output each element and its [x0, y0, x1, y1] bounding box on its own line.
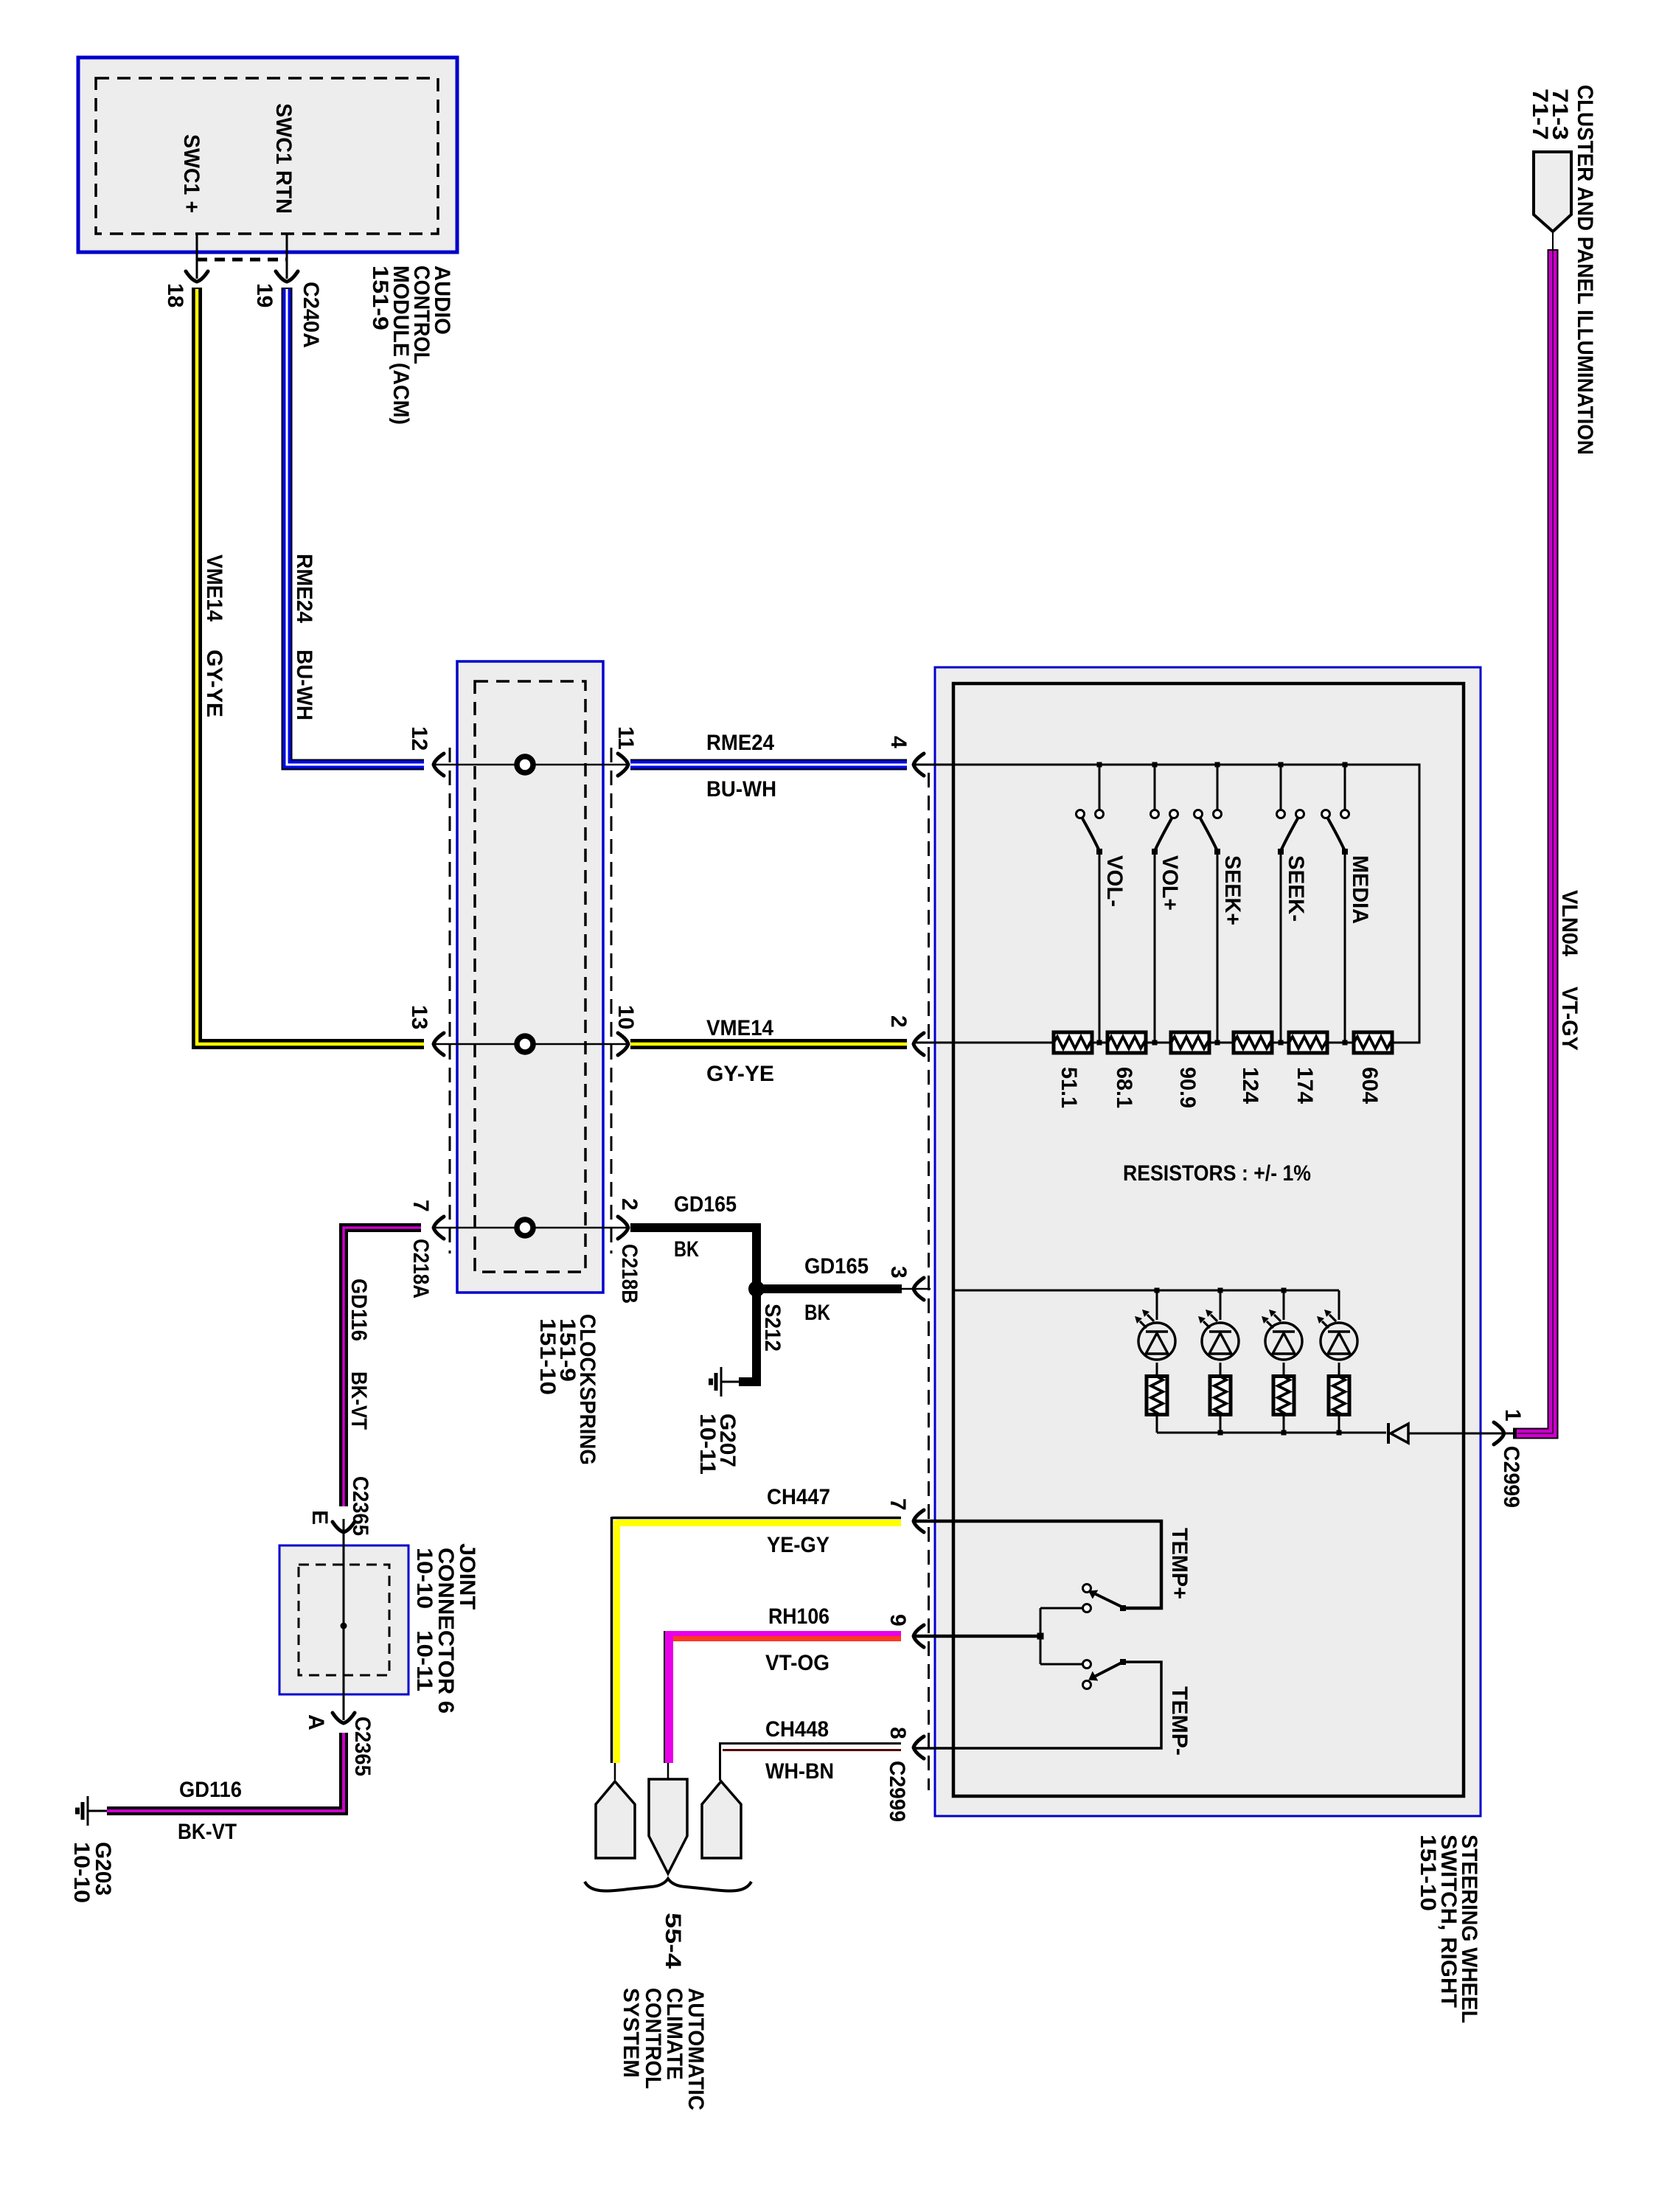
resistor ladder wire — [914, 1042, 1054, 1044]
resistor 604 — [1354, 1032, 1392, 1053]
joint connector internal wire — [343, 1519, 345, 1720]
svg-text:CLUSTER AND PANEL ILLUMINATION: CLUSTER AND PANEL ILLUMINATION — [1573, 85, 1597, 455]
LED bus bottom — [1157, 1432, 1386, 1434]
svg-text:SWC1 +: SWC1 + — [179, 134, 204, 213]
svg-text:TEMP+: TEMP+ — [1167, 1528, 1192, 1599]
pin 18 arrow — [186, 271, 208, 282]
clockspring pin row 12-11 — [435, 764, 627, 766]
pin 19 arrow — [276, 271, 298, 282]
svg-text:604: 604 — [1357, 1067, 1382, 1104]
svg-text:S212: S212 — [760, 1304, 785, 1352]
svg-text:RME24: RME24 — [706, 731, 774, 755]
switch MEDIA — [1322, 765, 1349, 1043]
ground G207 — [711, 1367, 721, 1397]
splice S212 — [748, 1281, 765, 1297]
bus from pin 4 — [914, 765, 1419, 1043]
clockspring pin row 7-2 — [435, 1227, 627, 1229]
svg-text:124: 124 — [1238, 1067, 1262, 1104]
resistor 90.9 — [1171, 1032, 1209, 1053]
svg-text:51.1: 51.1 — [1057, 1067, 1081, 1108]
pin 1 arrow — [1494, 1422, 1504, 1444]
svg-text:VME14: VME14 — [202, 554, 226, 622]
svg-text:C2365: C2365 — [350, 1717, 375, 1776]
svg-text:GY-YE: GY-YE — [706, 1062, 774, 1086]
LED column 4 — [1317, 1290, 1357, 1433]
svg-text:SEEK-: SEEK- — [1284, 855, 1308, 922]
switch VOL- — [1077, 765, 1104, 1043]
common vertical — [1040, 1608, 1042, 1664]
resistor 174 — [1289, 1032, 1327, 1053]
wire CH448 WH-BN — [719, 1742, 901, 1745]
switch VOL+ — [1151, 765, 1178, 1043]
svg-text:BK: BK — [674, 1237, 699, 1262]
ground lead — [722, 1381, 739, 1383]
svg-text:C2999: C2999 — [1499, 1446, 1523, 1508]
svg-text:RH106: RH106 — [768, 1604, 829, 1629]
off-page connector (CH448) — [702, 1781, 741, 1858]
svg-text:10-10: 10-10 — [69, 1842, 94, 1903]
TEMP+ switch — [1040, 1585, 1126, 1613]
svg-text:CH447: CH447 — [767, 1485, 830, 1509]
svg-text:19: 19 — [252, 283, 276, 307]
pin 9 arrow — [914, 1625, 924, 1647]
wire VME14 GY-YE from pin 18 — [197, 288, 424, 1044]
TEMP+ feed — [915, 1521, 1161, 1608]
svg-text:BU-WH: BU-WH — [706, 777, 776, 801]
svg-text:SYSTEM: SYSTEM — [619, 1988, 643, 2078]
svg-text:VOL-: VOL- — [1102, 855, 1127, 907]
svg-text:MEDIA: MEDIA — [1348, 855, 1372, 924]
svg-text:2: 2 — [617, 1198, 641, 1211]
wire RH106 VT-OG — [669, 1631, 901, 1636]
svg-text:7: 7 — [408, 1200, 433, 1212]
pin 18 stub — [196, 234, 198, 279]
switch module inner border — [953, 684, 1464, 1796]
wire RME24 BU-WH from pin 19 — [287, 288, 424, 765]
svg-text:7: 7 — [886, 1498, 910, 1511]
junction dots on bus — [1097, 762, 1102, 768]
svg-text:4: 4 — [886, 736, 911, 748]
clockspring box — [457, 661, 603, 1293]
svg-text:11: 11 — [613, 726, 638, 750]
nut symbol row 3 — [517, 1220, 533, 1236]
svg-text:55-4: 55-4 — [661, 1913, 685, 1969]
LED bus top — [955, 1290, 1339, 1292]
svg-text:BK: BK — [804, 1301, 830, 1325]
brace 55-4 — [585, 1879, 751, 1891]
svg-text:90.9: 90.9 — [1175, 1067, 1200, 1108]
svg-text:3: 3 — [886, 1266, 911, 1279]
ground lead G203 — [88, 1810, 107, 1812]
off-page connector (RH106) — [649, 1779, 687, 1874]
clockspring inner dashed outline — [475, 681, 585, 1272]
pin 19 stub — [286, 234, 288, 279]
joint connector node — [341, 1623, 347, 1630]
wire S212 to ground G207 — [739, 1289, 757, 1382]
wire VLN04 VT-GY — [1513, 249, 1553, 1433]
resistor 68.1 — [1107, 1032, 1146, 1053]
svg-text:10-10: 10-10 — [412, 1548, 437, 1609]
switch module box — [935, 667, 1481, 1816]
connector C240A dashed link — [197, 258, 287, 262]
joint connector 6 box — [279, 1545, 408, 1694]
pin 12 arrow — [434, 754, 444, 776]
clockspring pin row 13-10 — [435, 1043, 627, 1046]
svg-text:GD116: GD116 — [347, 1279, 371, 1341]
pin 2 arrow (switch) — [914, 1033, 924, 1055]
pin 8 arrow — [914, 1736, 924, 1759]
diode — [1387, 1423, 1390, 1444]
wire GD116 BK-VT to ground — [107, 1733, 344, 1811]
lead from connector — [1552, 232, 1554, 251]
ground G203 — [77, 1796, 88, 1826]
svg-text:C218B: C218B — [617, 1244, 641, 1304]
svg-text:BU-WH: BU-WH — [292, 650, 316, 720]
svg-text:SWC1 RTN: SWC1 RTN — [271, 103, 296, 214]
svg-text:VOL+: VOL+ — [1158, 855, 1182, 911]
pin 2 arrow — [618, 1217, 628, 1239]
LED column 3 — [1262, 1290, 1302, 1433]
svg-text:RME24: RME24 — [292, 554, 316, 623]
svg-text:68.1: 68.1 — [1112, 1067, 1136, 1108]
joint connector dashed outline — [299, 1565, 389, 1675]
svg-text:GY-YE: GY-YE — [202, 650, 226, 717]
off-page connector (CH447) — [596, 1781, 635, 1858]
TEMP- feed — [915, 1662, 1161, 1748]
nut symbol row 1 — [517, 757, 533, 773]
pin 3 arrow — [914, 1278, 924, 1300]
svg-text:C240A: C240A — [299, 282, 323, 348]
wire GD116 BK-VT from clockspring pin 7 — [344, 1228, 421, 1506]
wire RME24 BU-WH clockspring to switch — [630, 759, 907, 771]
svg-text:151-10: 151-10 — [1416, 1834, 1440, 1911]
svg-text:E: E — [307, 1510, 332, 1525]
svg-text:BK-VT: BK-VT — [347, 1371, 371, 1430]
svg-text:WH-BN: WH-BN — [765, 1759, 834, 1784]
nut symbol row 2 — [517, 1036, 533, 1052]
svg-text:10-11: 10-11 — [695, 1413, 720, 1475]
svg-text:SEEK+: SEEK+ — [1220, 855, 1245, 925]
svg-text:71-7: 71-7 — [1528, 88, 1552, 140]
junction pin 9 — [1037, 1633, 1044, 1640]
svg-text:VT-OG: VT-OG — [765, 1651, 829, 1675]
wire GD165 BK S212 to switch — [757, 1284, 902, 1293]
svg-text:VME14: VME14 — [706, 1016, 773, 1040]
lead to pin 1 — [1408, 1433, 1513, 1435]
pin A arrow — [333, 1713, 355, 1723]
svg-text:1: 1 — [1500, 1409, 1525, 1422]
lead into connector 2 — [667, 1763, 669, 1779]
svg-text:151-10: 151-10 — [535, 1318, 560, 1395]
module box ACM — [78, 58, 457, 252]
svg-text:BK-VT: BK-VT — [178, 1820, 237, 1844]
svg-text:151-9: 151-9 — [368, 265, 392, 330]
switch SEEK+ — [1194, 765, 1222, 1043]
LED column 2 — [1198, 1290, 1239, 1433]
wire GD165 BK clockspring to S212 — [630, 1228, 757, 1289]
svg-text:A: A — [304, 1714, 328, 1731]
svg-text:10: 10 — [613, 1005, 638, 1029]
svg-text:2: 2 — [886, 1015, 911, 1028]
resistor 51.1 — [1054, 1032, 1092, 1053]
pin 9 feed — [915, 1635, 1040, 1638]
off-page connector (illumination) — [1534, 152, 1571, 232]
TEMP- switch — [1040, 1659, 1126, 1689]
svg-text:GD116: GD116 — [179, 1778, 242, 1802]
wire CH447 YE-GY — [612, 1517, 901, 1520]
svg-text:10-11: 10-11 — [412, 1630, 437, 1691]
svg-text:9: 9 — [886, 1614, 910, 1627]
LED column 1 — [1135, 1290, 1175, 1433]
svg-text:174: 174 — [1293, 1067, 1317, 1104]
pin 7 arrow — [434, 1217, 444, 1239]
resistor 124 — [1234, 1032, 1272, 1053]
pin 7 arrow — [914, 1510, 924, 1532]
ACM inner dashed connector outline — [96, 78, 438, 234]
svg-text:YE-GY: YE-GY — [767, 1533, 829, 1557]
connector C218B dashed line — [611, 748, 613, 1253]
switch SEEK- — [1277, 765, 1304, 1043]
pin 11 arrow — [618, 754, 628, 776]
svg-text:CONTROL: CONTROL — [641, 1988, 665, 2089]
svg-text:VLN04: VLN04 — [1557, 890, 1582, 956]
svg-text:GD165: GD165 — [674, 1192, 737, 1217]
wire VME14 GY-YE clockspring to switch — [630, 1039, 907, 1049]
junction dots on ladder — [1097, 1040, 1102, 1046]
thin lead to pin 3 — [902, 1288, 931, 1290]
svg-text:VT-GY: VT-GY — [1557, 987, 1582, 1051]
svg-text:8: 8 — [886, 1727, 910, 1739]
svg-text:13: 13 — [407, 1005, 431, 1029]
pin 4 arrow — [914, 754, 924, 776]
connector C2999 dashed line — [928, 773, 930, 1790]
pin 10 arrow — [618, 1033, 628, 1055]
svg-text:12: 12 — [407, 726, 431, 751]
svg-text:C2999: C2999 — [885, 1761, 909, 1822]
connector C218A dashed line — [449, 748, 451, 1253]
pin 13 arrow — [434, 1033, 444, 1055]
svg-text:C218A: C218A — [408, 1239, 433, 1298]
svg-text:TEMP-: TEMP- — [1167, 1686, 1192, 1756]
svg-text:GD165: GD165 — [804, 1254, 869, 1279]
svg-text:18: 18 — [163, 283, 187, 307]
pin E arrow — [333, 1522, 355, 1532]
lead into connector 1 — [614, 1763, 616, 1780]
svg-text:CH448: CH448 — [765, 1717, 829, 1742]
svg-text:RESISTORS : +/- 1%: RESISTORS : +/- 1% — [1123, 1161, 1311, 1186]
